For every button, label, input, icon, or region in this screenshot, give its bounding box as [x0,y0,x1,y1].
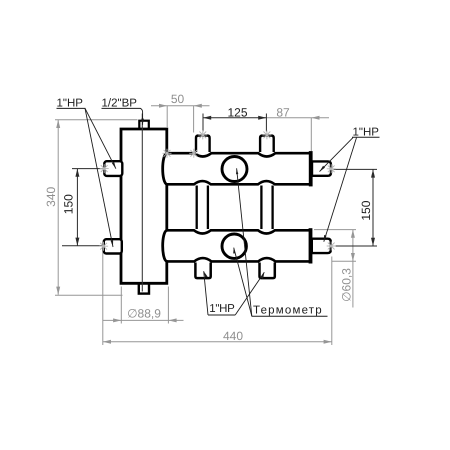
svg-text:1"HP: 1"HP [57,98,84,110]
leader arrowheads [111,119,327,279]
leader thermometer to lower circle [234,248,252,316]
left port 1"HP lower [104,239,122,253]
thermometer circle upper [222,157,247,182]
arrow in upper circle [236,168,238,174]
svg-text:1"HP: 1"HP [209,303,235,315]
gray dimension texts [44,92,354,343]
svg-text:87: 87 [276,105,290,119]
leader 1"HP right to stub1 [320,138,354,172]
dimension d60.3 extension lines [314,230,356,262]
svg-text:∅60,3: ∅60,3 [339,268,353,302]
svg-text:1/2"BP: 1/2"BP [102,98,138,110]
body centerline [141,114,143,292]
dimension d60.3 line [352,230,354,308]
dimension 340 extension lines [55,120,138,295]
star at riser R2 top [262,130,271,139]
arrows 125 [203,116,211,120]
dimension 125 extension lines [203,114,266,132]
bottom riser B2 under lower collector [256,258,279,278]
riser R1 on top of upper collector [193,136,214,157]
leader 1/2"BP to top stub [140,108,142,125]
dimension d88.9 extension lines [121,287,168,324]
connector pipe between collectors (right) sides [261,184,272,232]
leader thermometer to upper circle [237,168,252,316]
svg-text:340: 340 [44,186,58,206]
arrow in lower circle [233,248,235,254]
dimension d88.9 line [103,319,184,321]
arrow at right stub1 [320,166,326,172]
star at left port 1 [100,164,109,173]
arrow at riser B1 [204,271,208,277]
right stub 1"HP upper [312,161,331,175]
connector pipe between collectors (left) sides [197,184,208,232]
dimension 50 extension lines [167,106,193,133]
leader 1"HP bottom to riser B2 [235,272,264,315]
dimension 150 left extension lines [62,169,104,246]
star at body/collector junction [163,149,172,158]
upper collector bottom edge with connector saddles [167,181,309,184]
arrow at riser B2 [261,272,264,279]
dimension 50 line [151,105,210,107]
leader 1"HP right to stub2 [324,138,357,242]
svg-text:50: 50 [171,92,185,106]
upper collector end cap [309,151,313,186]
star at right stub 2 [327,242,336,251]
dimension 125 line [203,117,266,119]
bottom riser B1 under lower collector [192,258,215,278]
black dimension texts [62,105,374,220]
lower collector top edge with connector saddles [167,230,309,233]
lower collector bottom edge with riser saddles [167,258,309,261]
star at left port 2 [99,242,108,251]
arrow at port2 [111,240,114,247]
dimension 150 left line [76,169,78,246]
riser R2 on top of upper collector [257,136,278,157]
dimension 150 right extension lines [334,169,378,246]
bottom stub on separator body [139,281,149,294]
upper collector top edge with riser saddles [167,153,309,156]
arrow at right stub2 [324,235,327,242]
label texts [57,98,380,317]
lower collector bar fill [166,229,309,263]
dimension 440 extension lines [103,245,332,345]
dimension 150 right line [372,169,374,246]
svg-text:440: 440 [223,329,243,343]
arrow at port1 [112,162,116,169]
arrows 150 right [371,169,375,177]
upper collector bar fill [166,152,309,186]
connector pipe fill (left) [194,181,212,233]
dimension 340 line [57,120,59,295]
connector pipe fill (right) [258,181,276,233]
arrows 50 (outside) [159,104,167,108]
dimension 440 line [103,341,332,343]
svg-text:150: 150 [62,194,76,214]
arrows d60.3 (inside) [351,230,355,238]
svg-text:125: 125 [227,105,247,119]
star at right stub 1 [327,164,336,173]
leader 1"HP top-left to port1 [85,108,116,168]
right stub 1"HP lower [312,239,331,253]
arrows 440 [103,340,111,344]
dimension 87 line [266,117,329,119]
leader 1"HP bottom to riser B1 [204,271,208,315]
black dimension arrowheads [75,116,375,246]
dimension 87 extension line [310,118,312,151]
star at riser R1 top [198,130,207,139]
left port 1"HP upper [104,161,122,176]
arrow at top stub [141,119,144,125]
lower collector end cap [309,228,313,263]
top stub 1/2"BP on separator body [139,121,149,133]
leader 1"HP top-left to port2 [85,108,113,247]
arrows 340 [56,120,60,128]
gray dimension arrowheads [56,104,355,344]
arrow 87 (outside right) [311,116,319,120]
arrows d88.9 (outside) [113,318,121,322]
separator body [121,129,167,283]
thermometer circle lower [222,234,246,258]
star at riser R1 base [189,149,198,158]
svg-text:Термометр: Термометр [253,304,323,316]
arrows 150 left [75,169,79,177]
svg-text:∅88,9: ∅88,9 [127,307,161,321]
svg-text:150: 150 [359,200,373,220]
